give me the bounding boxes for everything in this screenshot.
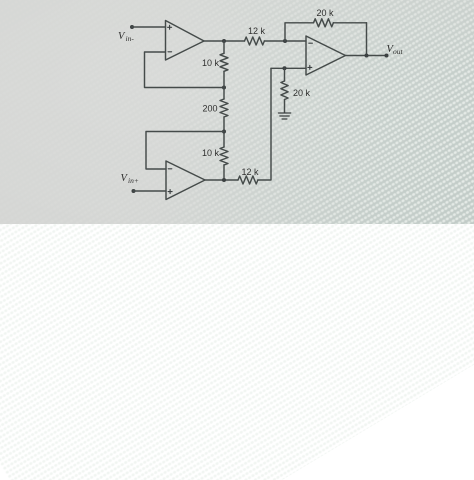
- wire node E down to 20k: [284, 68, 286, 81]
- node C junction dot: [283, 39, 287, 43]
- U3 minus sign: [168, 168, 172, 170]
- resistor 12k top: [245, 37, 265, 45]
- node Vin+ input dot: [132, 189, 136, 193]
- resistor 200: [220, 99, 228, 117]
- svg-text:12 k: 12 k: [248, 26, 266, 36]
- wire 20k to ground: [284, 100, 286, 113]
- wire feedback right vertical: [366, 23, 368, 56]
- wire Vin- to U1 + input: [132, 26, 166, 28]
- label Vin+: [121, 173, 139, 185]
- wire feedback left vertical: [285, 23, 367, 41]
- U3 plus sign: [168, 190, 172, 194]
- U1 minus sign: [168, 51, 172, 53]
- wire U3 output: [205, 179, 238, 181]
- resistor 20k feedback: [314, 19, 334, 27]
- U1 plus sign: [168, 25, 172, 29]
- resistor 10k lower: [220, 147, 228, 165]
- node D output junction dot: [365, 54, 369, 58]
- node A junction dot: [222, 86, 226, 90]
- wire chain 10k to node A: [223, 71, 225, 99]
- wire node F feedback to U3 - input: [146, 132, 224, 170]
- wire U2 + input: [271, 67, 306, 69]
- node G U3 output dot: [222, 178, 226, 182]
- label Vout: [387, 44, 404, 56]
- wire Vin+ to U3 + input: [134, 190, 167, 192]
- wire 12k to U2 - input: [264, 40, 306, 42]
- U2 minus sign: [309, 42, 313, 44]
- svg-text:in+: in+: [128, 176, 139, 185]
- resistor 12k bottom: [238, 176, 258, 184]
- wire 12k up to U2 + input: [258, 68, 271, 180]
- resistor 20k to ground: [281, 81, 288, 99]
- wire chain 200 to node F: [223, 117, 225, 147]
- node Vout dot: [385, 54, 389, 58]
- wire chain 10k to U3 output node: [223, 165, 225, 180]
- op-amp U1: [166, 21, 205, 61]
- svg-text:200: 200: [203, 104, 218, 114]
- svg-text:12 k: 12 k: [242, 167, 260, 177]
- ground: [278, 113, 291, 119]
- wire U1 output node down chain: [223, 41, 225, 53]
- U2 plus sign: [308, 65, 312, 69]
- svg-text:10 k: 10 k: [202, 148, 220, 158]
- node E junction dot: [283, 66, 287, 70]
- node Vin- input dot: [130, 25, 134, 29]
- node F junction dot: [222, 130, 226, 134]
- op-amp U2: [306, 36, 346, 75]
- wire U2 output to Vout: [346, 55, 387, 57]
- svg-text:20 k: 20 k: [293, 88, 311, 98]
- svg-text:out: out: [393, 47, 404, 56]
- op-amp U3: [166, 161, 205, 200]
- svg-text:10 k: 10 k: [202, 58, 220, 68]
- resistor 10k upper: [220, 53, 228, 71]
- svg-text:in-: in-: [126, 34, 135, 43]
- node B U1 output dot: [222, 39, 226, 43]
- label Vin-: [118, 31, 134, 43]
- wire U1 output: [204, 40, 245, 42]
- wire U1 - feedback to node A: [145, 52, 225, 88]
- svg-text:20 k: 20 k: [317, 8, 335, 18]
